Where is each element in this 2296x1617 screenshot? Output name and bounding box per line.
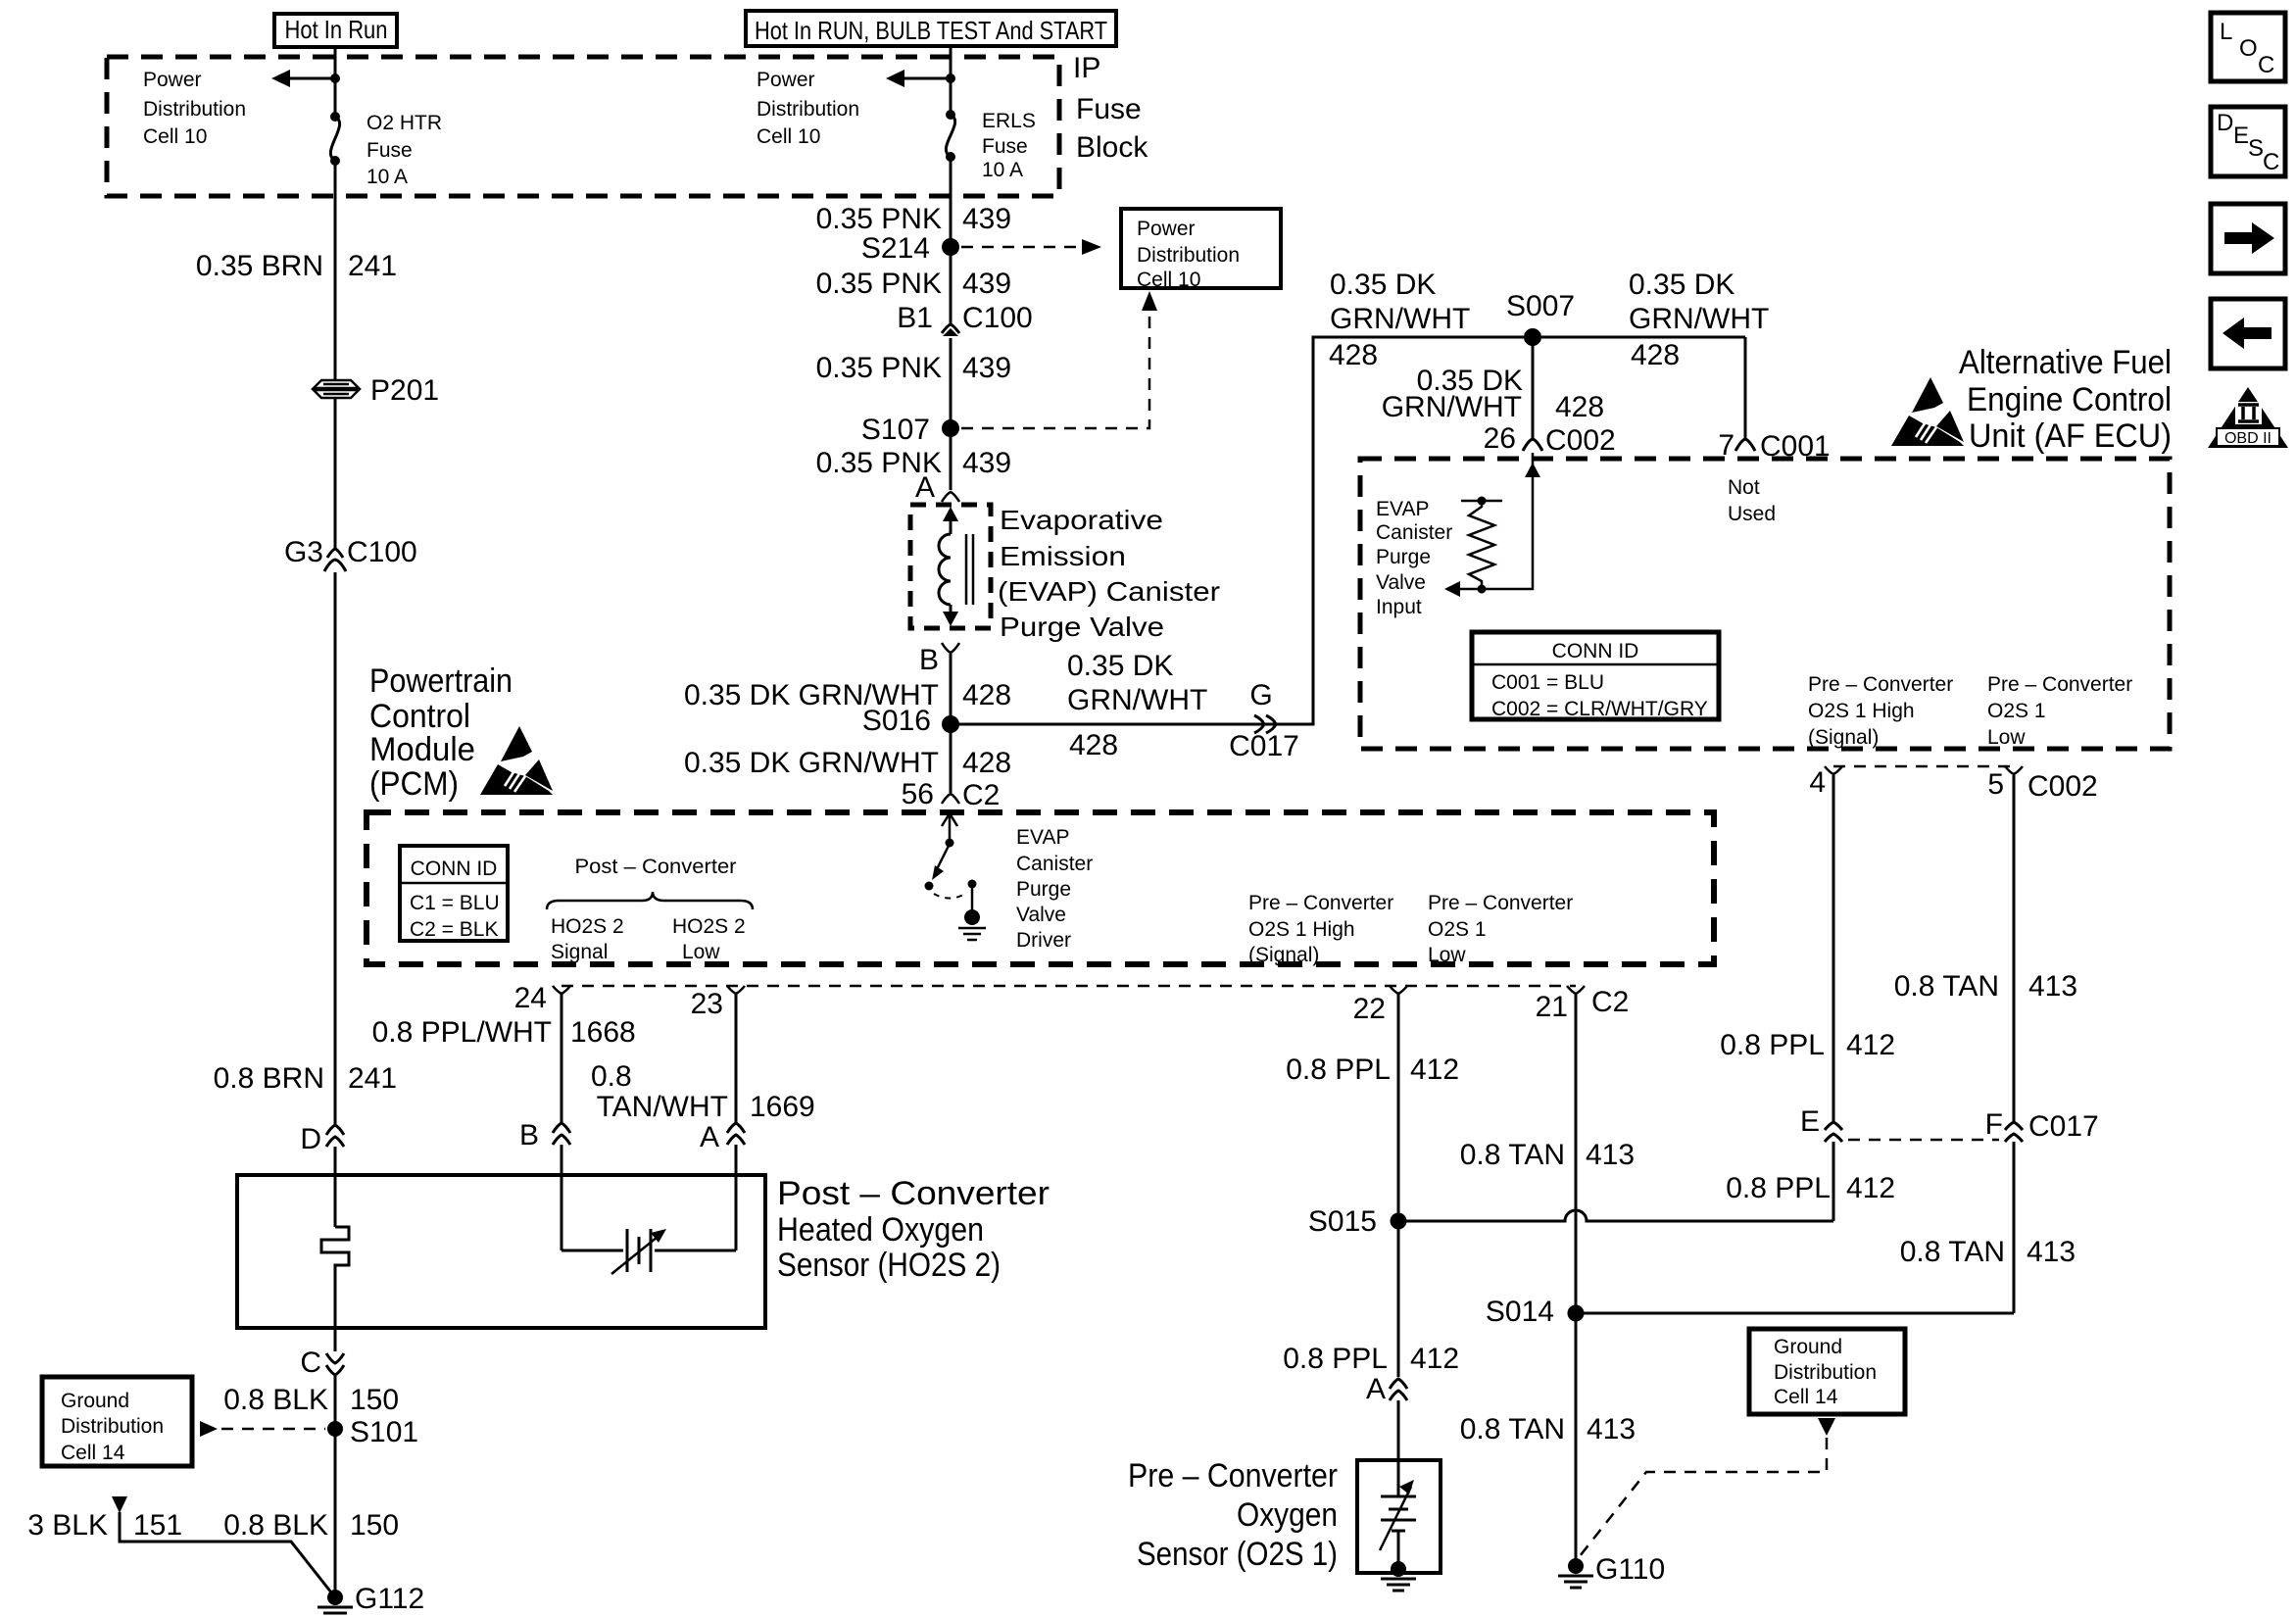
svg-text:S015: S015 xyxy=(1308,1205,1377,1238)
svg-text:Cell 10: Cell 10 xyxy=(757,125,820,148)
svg-text:Post – Converter: Post – Converter xyxy=(575,856,737,878)
svg-text:L: L xyxy=(2220,19,2232,45)
svg-text:C2: C2 xyxy=(1591,986,1629,1018)
svg-text:428: 428 xyxy=(1555,391,1604,423)
svg-text:O2S 1: O2S 1 xyxy=(1428,918,1487,941)
svg-text:S101: S101 xyxy=(350,1416,418,1448)
svg-text:413: 413 xyxy=(1586,1139,1635,1171)
svg-text:C017: C017 xyxy=(2028,1110,2099,1143)
svg-text:0.8 PPL: 0.8 PPL xyxy=(1720,1029,1825,1061)
svg-text:Hot In RUN, BULB TEST And STAR: Hot In RUN, BULB TEST And START xyxy=(755,16,1107,45)
svg-text:A: A xyxy=(915,471,935,504)
svg-text:3 BLK: 3 BLK xyxy=(27,1509,108,1542)
svg-text:Cell 14: Cell 14 xyxy=(1774,1386,1838,1408)
svg-text:Driver: Driver xyxy=(1016,929,1071,952)
svg-text:C1 = BLU: C1 = BLU xyxy=(410,892,500,914)
svg-text:C2 = BLK: C2 = BLK xyxy=(410,918,498,941)
svg-text:Signal: Signal xyxy=(551,941,608,963)
svg-text:0.35 DK: 0.35 DK xyxy=(1629,269,1734,301)
svg-text:Engine Control: Engine Control xyxy=(1967,381,2172,418)
svg-text:F: F xyxy=(1985,1108,2003,1141)
svg-text:0.35 PNK: 0.35 PNK xyxy=(816,352,942,384)
svg-text:439: 439 xyxy=(962,447,1011,479)
svg-text:Not: Not xyxy=(1728,476,1760,499)
svg-text:C002: C002 xyxy=(1545,424,1616,457)
svg-text:ERLS: ERLS xyxy=(982,110,1036,132)
svg-text:10 A: 10 A xyxy=(366,166,408,188)
svg-text:4: 4 xyxy=(1809,766,1826,799)
svg-text:0.35 BRN: 0.35 BRN xyxy=(196,250,323,282)
svg-text:A: A xyxy=(700,1121,719,1153)
svg-text:428: 428 xyxy=(1329,339,1378,371)
svg-text:0.8 TAN: 0.8 TAN xyxy=(1460,1413,1565,1445)
svg-text:Fuse: Fuse xyxy=(366,139,413,162)
svg-text:Cell 14: Cell 14 xyxy=(61,1442,125,1464)
svg-text:Cell 10: Cell 10 xyxy=(1137,269,1200,291)
svg-text:412: 412 xyxy=(1846,1172,1895,1204)
svg-text:Alternative Fuel: Alternative Fuel xyxy=(1959,344,2172,381)
svg-text:10 A: 10 A xyxy=(982,159,1023,181)
svg-text:Ground: Ground xyxy=(1774,1336,1842,1358)
svg-text:Low: Low xyxy=(1428,944,1466,966)
svg-text:O2S 1 High: O2S 1 High xyxy=(1808,700,1915,722)
svg-text:Distribution: Distribution xyxy=(757,98,859,121)
svg-text:0.8: 0.8 xyxy=(591,1060,632,1093)
svg-text:S: S xyxy=(2248,135,2264,162)
svg-text:Module: Module xyxy=(369,731,475,768)
svg-text:GRN/WHT: GRN/WHT xyxy=(1629,303,1769,335)
svg-text:Control: Control xyxy=(369,698,470,735)
svg-text:0.8 TAN: 0.8 TAN xyxy=(1900,1236,2005,1268)
svg-text:23: 23 xyxy=(691,988,723,1020)
svg-text:Hot In Run: Hot In Run xyxy=(285,15,388,44)
svg-text:C001 = BLU: C001 = BLU xyxy=(1491,671,1604,694)
svg-text:Heated Oxygen: Heated Oxygen xyxy=(777,1211,984,1249)
svg-text:S007: S007 xyxy=(1506,290,1575,322)
svg-text:Pre – Converter: Pre – Converter xyxy=(1808,673,1953,696)
svg-text:C: C xyxy=(300,1347,321,1379)
svg-text:412: 412 xyxy=(1410,1053,1459,1086)
svg-text:EVAP: EVAP xyxy=(1016,826,1069,849)
svg-text:HO2S 2: HO2S 2 xyxy=(551,915,624,938)
svg-text:O: O xyxy=(2239,35,2258,62)
svg-text:Purge: Purge xyxy=(1376,546,1431,568)
svg-text:Power: Power xyxy=(757,69,815,91)
svg-text:GRN/WHT: GRN/WHT xyxy=(1330,303,1470,335)
svg-text:26: 26 xyxy=(1484,422,1516,455)
svg-text:Distribution: Distribution xyxy=(1774,1361,1877,1384)
svg-text:O2S 1 High: O2S 1 High xyxy=(1248,918,1355,941)
svg-text:(EVAP) Canister: (EVAP) Canister xyxy=(998,576,1220,607)
svg-text:5: 5 xyxy=(1987,768,2004,801)
svg-text:(Signal): (Signal) xyxy=(1248,944,1319,966)
svg-text:GRN/WHT: GRN/WHT xyxy=(1382,391,1522,423)
svg-text:OBD II: OBD II xyxy=(2224,430,2272,447)
svg-text:Canister: Canister xyxy=(1016,853,1093,875)
svg-text:D: D xyxy=(2217,110,2233,136)
svg-text:428: 428 xyxy=(962,679,1011,711)
svg-text:24: 24 xyxy=(514,982,547,1014)
svg-text:EVAP: EVAP xyxy=(1376,498,1429,520)
svg-text:0.8 BRN: 0.8 BRN xyxy=(214,1062,324,1095)
svg-text:0.35 DK: 0.35 DK xyxy=(1067,650,1173,682)
svg-text:Oxygen: Oxygen xyxy=(1237,1496,1338,1534)
svg-text:Used: Used xyxy=(1728,503,1776,525)
svg-text:D: D xyxy=(300,1123,321,1155)
svg-text:Valve: Valve xyxy=(1376,571,1426,594)
svg-text:22: 22 xyxy=(1353,993,1386,1025)
svg-text:1669: 1669 xyxy=(750,1091,815,1123)
svg-text:S107: S107 xyxy=(861,414,930,446)
svg-text:GRN/WHT: GRN/WHT xyxy=(1067,684,1207,716)
svg-text:CONN ID: CONN ID xyxy=(411,857,498,880)
svg-text:56: 56 xyxy=(902,778,934,810)
svg-text:0.35 DK: 0.35 DK xyxy=(1330,269,1436,301)
svg-text:Low: Low xyxy=(682,941,720,963)
svg-text:Purge Valve: Purge Valve xyxy=(1000,612,1164,642)
svg-text:G: G xyxy=(1249,679,1272,711)
svg-text:0.8 TAN: 0.8 TAN xyxy=(1460,1139,1565,1171)
svg-text:413: 413 xyxy=(1587,1413,1636,1445)
svg-text:Cell 10: Cell 10 xyxy=(143,125,207,148)
svg-text:C002: C002 xyxy=(2027,770,2098,803)
svg-text:Sensor (HO2S 2): Sensor (HO2S 2) xyxy=(777,1247,1001,1284)
svg-text:E: E xyxy=(2233,122,2249,149)
svg-text:Sensor (O2S 1): Sensor (O2S 1) xyxy=(1137,1536,1338,1573)
svg-text:S214: S214 xyxy=(861,232,930,265)
svg-text:Pre – Converter: Pre – Converter xyxy=(1128,1457,1338,1494)
svg-text:241: 241 xyxy=(348,1062,397,1095)
svg-text:S014: S014 xyxy=(1486,1296,1554,1328)
svg-text:0.8 BLK: 0.8 BLK xyxy=(223,1509,328,1542)
svg-text:Power: Power xyxy=(143,69,202,91)
svg-text:0.8 PPL/WHT: 0.8 PPL/WHT xyxy=(372,1016,552,1049)
svg-text:CONN ID: CONN ID xyxy=(1552,640,1639,662)
svg-text:241: 241 xyxy=(348,250,397,282)
svg-text:Distribution: Distribution xyxy=(1137,244,1240,267)
svg-text:412: 412 xyxy=(1410,1343,1459,1375)
svg-text:C017: C017 xyxy=(1229,730,1299,762)
svg-text:Block: Block xyxy=(1076,131,1148,164)
svg-text:Fuse: Fuse xyxy=(982,135,1028,158)
svg-text:0.35 DK GRN/WHT: 0.35 DK GRN/WHT xyxy=(684,747,939,779)
svg-text:439: 439 xyxy=(962,203,1011,235)
svg-text:0.8 BLK: 0.8 BLK xyxy=(223,1384,328,1416)
svg-text:O2 HTR: O2 HTR xyxy=(366,112,442,134)
svg-text:413: 413 xyxy=(2027,1236,2076,1268)
svg-text:0.8 TAN: 0.8 TAN xyxy=(1894,970,1999,1003)
svg-text:150: 150 xyxy=(350,1509,399,1542)
svg-text:439: 439 xyxy=(962,352,1011,384)
svg-text:TAN/WHT: TAN/WHT xyxy=(597,1091,728,1123)
svg-text:Post – Converter: Post – Converter xyxy=(777,1175,1050,1212)
svg-text:(PCM): (PCM) xyxy=(369,765,459,803)
svg-text:0.35 PNK: 0.35 PNK xyxy=(816,268,942,300)
svg-text:Low: Low xyxy=(1987,726,2026,749)
svg-text:C002 = CLR/WHT/GRY: C002 = CLR/WHT/GRY xyxy=(1491,698,1708,720)
svg-text:C2: C2 xyxy=(962,779,1000,811)
svg-text:G110: G110 xyxy=(1595,1553,1665,1586)
svg-text:Input: Input xyxy=(1376,596,1422,618)
svg-text:Distribution: Distribution xyxy=(61,1415,164,1438)
svg-text:Emission: Emission xyxy=(1000,541,1126,571)
svg-text:IP: IP xyxy=(1073,52,1100,84)
svg-text:Powertrain: Powertrain xyxy=(369,662,513,700)
svg-text:C: C xyxy=(2258,52,2274,78)
svg-text:21: 21 xyxy=(1536,991,1568,1023)
svg-text:0.8 PPL: 0.8 PPL xyxy=(1286,1053,1391,1086)
svg-text:G3: G3 xyxy=(284,536,323,568)
svg-text:Purge: Purge xyxy=(1016,878,1071,901)
svg-text:C: C xyxy=(2263,149,2279,175)
svg-text:Fuse: Fuse xyxy=(1076,93,1142,125)
svg-text:B: B xyxy=(919,644,939,676)
svg-text:439: 439 xyxy=(962,268,1011,300)
svg-text:Pre – Converter: Pre – Converter xyxy=(1987,673,2132,696)
svg-text:Distribution: Distribution xyxy=(143,98,246,121)
svg-text:428: 428 xyxy=(1631,339,1680,371)
svg-text:B: B xyxy=(519,1119,539,1151)
svg-text:0.35 PNK: 0.35 PNK xyxy=(816,203,942,235)
svg-text:412: 412 xyxy=(1846,1029,1895,1061)
svg-text:Pre – Converter: Pre – Converter xyxy=(1248,892,1393,914)
svg-text:O2S 1: O2S 1 xyxy=(1987,700,2046,722)
svg-text:0.8 PPL: 0.8 PPL xyxy=(1726,1172,1831,1204)
svg-text:Power: Power xyxy=(1137,218,1196,240)
svg-text:Pre – Converter: Pre – Converter xyxy=(1428,892,1573,914)
svg-text:Ground: Ground xyxy=(61,1390,129,1412)
svg-text:Unit (AF ECU): Unit (AF ECU) xyxy=(1969,417,2172,455)
svg-text:G112: G112 xyxy=(355,1583,424,1615)
svg-text:1668: 1668 xyxy=(570,1016,636,1049)
svg-text:B1: B1 xyxy=(897,302,933,334)
svg-text:C100: C100 xyxy=(347,536,417,568)
svg-text:A: A xyxy=(1366,1373,1386,1405)
svg-text:P201: P201 xyxy=(370,374,439,407)
svg-text:413: 413 xyxy=(2028,970,2077,1003)
svg-text:S016: S016 xyxy=(862,705,931,737)
svg-text:428: 428 xyxy=(1069,729,1118,761)
svg-text:Canister: Canister xyxy=(1376,521,1452,544)
svg-text:Valve: Valve xyxy=(1016,904,1066,926)
svg-text:151: 151 xyxy=(133,1509,182,1542)
svg-text:(Signal): (Signal) xyxy=(1808,726,1879,749)
svg-text:E: E xyxy=(1800,1105,1820,1138)
svg-text:Evaporative: Evaporative xyxy=(1000,505,1163,535)
svg-text:C100: C100 xyxy=(962,302,1033,334)
svg-text:HO2S 2: HO2S 2 xyxy=(672,915,746,938)
svg-text:0.8 PPL: 0.8 PPL xyxy=(1283,1343,1388,1375)
svg-text:150: 150 xyxy=(350,1384,399,1416)
svg-text:428: 428 xyxy=(962,747,1011,779)
